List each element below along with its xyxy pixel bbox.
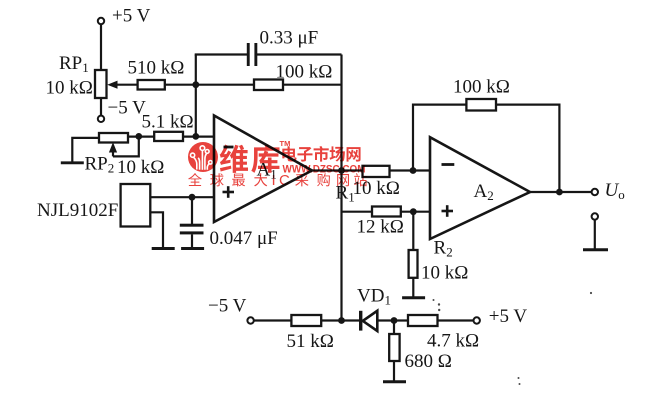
wire 680 top xyxy=(393,321,395,336)
minus sign A2 xyxy=(442,163,455,166)
resistor 100k A1 xyxy=(254,80,283,91)
ground NJL xyxy=(152,247,175,250)
resistor R1 10k xyxy=(363,166,390,177)
wire RP2 wiper to node xyxy=(113,136,139,156)
node junction minus input A1 xyxy=(192,133,199,140)
plus sign A1 xyxy=(223,186,235,198)
plus sign A2 xyxy=(442,205,454,217)
watermark text slogan xyxy=(188,173,202,186)
wire R2 top xyxy=(412,212,414,251)
watermark text weiku xyxy=(220,145,248,173)
wire 51k to node xyxy=(321,319,359,321)
svg-text:680 Ω: 680 Ω xyxy=(405,351,452,372)
ground cap2 xyxy=(181,247,204,250)
svg-text:0.047 μF: 0.047 μF xyxy=(210,228,278,249)
wire VD1 to node xyxy=(377,319,408,321)
svg-text:WWW.DZSC.COM: WWW.DZSC.COM xyxy=(283,163,366,175)
capacitor C 0.33uF xyxy=(247,43,257,66)
resistor 100k A2 xyxy=(466,99,496,111)
resistor 51k xyxy=(291,315,321,326)
resistor 12k xyxy=(372,207,401,217)
terminal -5V bottom xyxy=(247,317,253,323)
wire 4.7k to +5V xyxy=(438,319,474,321)
wire RP1 to -5V xyxy=(100,98,102,116)
terminal output lower xyxy=(592,213,598,219)
resistor 4.7k xyxy=(408,315,438,326)
svg-text:+5 V: +5 V xyxy=(112,6,151,27)
wire 100k left xyxy=(196,84,254,86)
wire vertical feedback A1 xyxy=(340,55,342,321)
wire A2 output xyxy=(530,191,592,193)
wire NJL pin2 xyxy=(150,212,163,247)
svg-text:NJL9102F: NJL9102F xyxy=(37,200,118,221)
wire cap left xyxy=(195,53,248,55)
svg-text:10 kΩ: 10 kΩ xyxy=(353,178,400,199)
svg-text:5.1 kΩ: 5.1 kΩ xyxy=(142,112,194,133)
wire 680 bottom xyxy=(393,361,395,381)
ground R2 xyxy=(402,296,425,299)
wiper arrow RP1 xyxy=(107,81,137,89)
svg-text:10 kΩ: 10 kΩ xyxy=(46,78,93,99)
minus sign A1 xyxy=(224,146,234,149)
stub bar RP2 left xyxy=(61,161,84,164)
potentiometer RP2 body xyxy=(99,133,128,143)
svg-text:100 kΩ: 100 kΩ xyxy=(453,77,510,98)
terminal +5V bottom xyxy=(474,317,480,323)
wiper arrow RP2 xyxy=(109,142,117,156)
diode VD1 xyxy=(359,311,377,331)
svg-text:+5 V: +5 V xyxy=(489,306,528,327)
wire R2 bottom xyxy=(412,278,414,297)
svg-text:100 kΩ: 100 kΩ xyxy=(276,62,333,83)
resistor 680 xyxy=(389,334,399,361)
node junction RP2 xyxy=(135,133,142,140)
wire +5V to RP1 xyxy=(100,24,102,71)
wire 510k to node xyxy=(165,84,196,86)
node junction VD1 left xyxy=(338,317,345,324)
svg-text:I: I xyxy=(272,172,276,189)
speck xyxy=(433,292,593,385)
resistor R2 10k xyxy=(409,250,418,278)
resistor 5.1k xyxy=(154,132,183,141)
svg-text:10 kΩ: 10 kΩ xyxy=(421,263,468,284)
wire output lower xyxy=(594,220,596,249)
wire cap2 bottom xyxy=(191,234,193,248)
svg-text:51 kΩ: 51 kΩ xyxy=(287,331,334,352)
wire minus line xyxy=(128,136,214,138)
ground output xyxy=(583,248,608,251)
svg-text:10 kΩ: 10 kΩ xyxy=(117,157,164,178)
node junction output xyxy=(556,189,563,196)
wire vertical node xyxy=(195,55,197,138)
svg-text:510 kΩ: 510 kΩ xyxy=(128,58,185,79)
node junction plus A2 xyxy=(410,208,417,215)
op-amp A2 xyxy=(430,137,530,239)
watermark logo circle xyxy=(188,142,218,172)
wire A1 output xyxy=(312,169,430,171)
wire RP2 left xyxy=(72,138,99,162)
wire feedback A2 xyxy=(413,105,559,192)
wire cap right xyxy=(257,53,342,55)
wire plus input A1 xyxy=(150,196,214,198)
node junction feedback xyxy=(338,167,345,174)
terminal Uo xyxy=(592,189,598,195)
svg-text:4.7 kΩ: 4.7 kΩ xyxy=(427,331,479,352)
node junction VD1 right xyxy=(391,317,398,324)
svg-text:12 kΩ: 12 kΩ xyxy=(357,217,404,238)
power +5V terminal top xyxy=(98,18,104,24)
node junction minus A2 xyxy=(410,167,417,174)
wire cap2 top xyxy=(191,197,193,224)
op-amp A1 xyxy=(214,116,312,223)
ground 680 xyxy=(383,380,406,383)
svg-text:0.33 μF: 0.33 μF xyxy=(260,28,319,49)
potentiometer RP1 body xyxy=(95,70,107,98)
watermark logo pattern xyxy=(191,146,213,170)
svg-text:−5 V: −5 V xyxy=(208,296,247,317)
capacitor 0.047uF xyxy=(180,224,204,235)
wire 100k right xyxy=(283,84,342,86)
resistor 510k xyxy=(138,80,165,90)
svg-text:−5 V: −5 V xyxy=(108,98,147,119)
power -5V terminal xyxy=(98,116,104,122)
svg-text:C: C xyxy=(279,172,290,189)
wire 12k branch xyxy=(342,211,431,213)
node junction plus input xyxy=(189,194,196,201)
node junction 510k xyxy=(192,81,199,88)
wire -5V to 51k xyxy=(254,319,292,321)
sensor NJL9102F box xyxy=(121,184,151,227)
watermark text dianzishichangwang xyxy=(282,146,296,161)
